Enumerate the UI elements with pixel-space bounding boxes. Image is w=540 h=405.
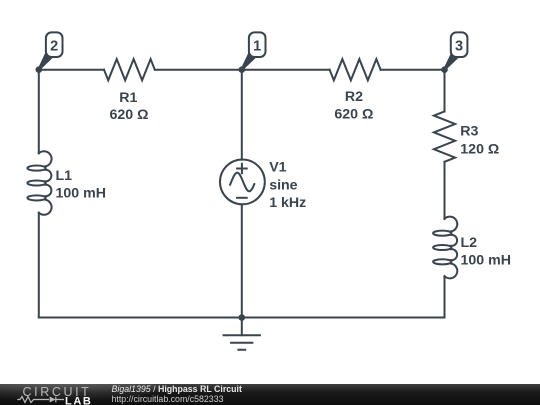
wire right: R3 to L2	[444, 162, 446, 219]
junction node 3 dot	[441, 66, 448, 73]
voltage source V1 circle	[220, 160, 265, 205]
node flag 3 tail	[444, 53, 459, 71]
inductor L2	[445, 217, 458, 232]
svg-text:620 Ω: 620 Ω	[110, 107, 149, 123]
svg-text:1 kHz: 1 kHz	[269, 195, 306, 211]
junction node 2 dot	[36, 66, 43, 73]
node flag 2 tail	[38, 53, 53, 71]
V1 sine waveform glyph	[230, 173, 254, 192]
svg-text:R1: R1	[119, 90, 137, 106]
resistor R2	[330, 59, 381, 80]
svg-text:100 mH: 100 mH	[461, 253, 511, 269]
node flag 1 box	[249, 32, 266, 57]
svg-text:http://circuitlab.com/c582333: http://circuitlab.com/c582333	[112, 394, 224, 404]
svg-text:120 Ω: 120 Ω	[460, 141, 499, 157]
svg-text:Bigal1395 / Highpass RL Circui: Bigal1395 / Highpass RL Circuit	[112, 384, 242, 394]
ground symbol	[223, 335, 261, 350]
svg-text:L1: L1	[56, 168, 73, 184]
node flag 2 box	[46, 32, 63, 57]
svg-text:3: 3	[455, 39, 463, 55]
svg-text:sine: sine	[269, 177, 297, 193]
junction node 1 dot	[239, 66, 246, 73]
wire top: R1 to node1	[155, 69, 242, 71]
wire top: R2 to node3	[381, 69, 445, 71]
resistor R1	[104, 59, 155, 80]
CircuitLab logo resistor-diode glyph	[17, 397, 64, 403]
wire top: node2 to R1	[39, 69, 104, 71]
svg-text:LAB: LAB	[65, 395, 92, 405]
wire right: node3 down to R3	[444, 70, 446, 112]
svg-text:V1: V1	[269, 160, 286, 176]
wire bottom rail left half	[39, 317, 242, 319]
node flag 1 tail	[241, 53, 256, 71]
V1 minus sign	[236, 197, 248, 199]
svg-text:R3: R3	[460, 124, 478, 140]
wire left: L1 down to bottom rail	[38, 213, 40, 318]
ground stub wire	[241, 318, 243, 336]
wire top: node1 to R2	[242, 69, 330, 71]
svg-text:R2: R2	[345, 89, 363, 105]
svg-text:2: 2	[50, 39, 58, 55]
svg-text:1: 1	[253, 39, 261, 55]
node flag 3 box	[451, 32, 468, 57]
V1 plus sign	[236, 163, 248, 175]
resistor R3	[434, 111, 455, 161]
svg-text:620 Ω: 620 Ω	[334, 107, 373, 123]
junction ground node dot	[239, 314, 246, 321]
svg-text:L2: L2	[461, 235, 478, 251]
inductor L1	[39, 151, 52, 166]
wire left: node2 down to L1	[38, 70, 40, 154]
wire bottom rail right half	[242, 317, 445, 319]
wire middle: node1 down to V1	[241, 70, 243, 160]
wire right: L2 down to bottom rail	[444, 276, 446, 317]
svg-text:100 mH: 100 mH	[56, 186, 106, 202]
wire middle: V1 down to bottom rail	[241, 204, 243, 317]
